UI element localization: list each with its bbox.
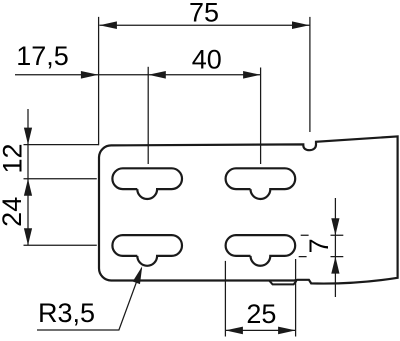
- arrow 40 right: [243, 71, 261, 79]
- slot row1 col2: [226, 168, 296, 199]
- dim line 7 vertical: [334, 198, 336, 297]
- svg-text:25: 25: [246, 299, 276, 329]
- arrow 17,5 right-pointing: [81, 71, 99, 79]
- arrow 75 left: [99, 21, 117, 29]
- arrow 12 top down: [24, 128, 32, 145]
- svg-text:7: 7: [304, 238, 334, 253]
- part outline: [99, 136, 398, 283]
- extension line left edge (75/17,5): [98, 17, 100, 145]
- extension line row1 center: [24, 178, 97, 180]
- svg-text:40: 40: [192, 44, 222, 74]
- dashed ext line 7 top: [301, 234, 344, 236]
- svg-text:17,5: 17,5: [16, 41, 69, 71]
- svg-text:75: 75: [189, 0, 219, 28]
- extension line row2 center: [24, 244, 97, 246]
- joggle lower edge: [269, 281, 296, 285]
- extension line 75 right: [309, 17, 311, 132]
- arrow 24 up: [24, 179, 32, 196]
- arrow 7 top down: [331, 218, 339, 235]
- dim line 75: [99, 24, 309, 26]
- svg-text:R3,5: R3,5: [38, 298, 95, 328]
- arrow 40 left: [148, 71, 166, 79]
- extension line top edge left: [24, 144, 99, 146]
- extension line 25 left: [224, 261, 226, 337]
- arrow 25 left: [225, 327, 243, 335]
- extension line col2 center: [260, 68, 262, 165]
- dim line 17,5 / 40: [15, 74, 261, 76]
- arrow 7 bottom up: [331, 257, 339, 274]
- slot row1 col1: [112, 168, 182, 199]
- svg-text:12: 12: [0, 143, 28, 173]
- leader arrow R3,5: [133, 266, 143, 284]
- extension line col1 center: [147, 67, 149, 164]
- arrow 75 right: [292, 21, 310, 29]
- dim line 25: [225, 329, 295, 331]
- leader R3,5: [37, 268, 142, 330]
- extension line 25 right: [295, 259, 297, 337]
- arrow 25 right: [278, 327, 296, 335]
- dashed ext line 7 bottom: [299, 256, 344, 258]
- slot row2 col1: [112, 235, 182, 266]
- svg-text:24: 24: [0, 197, 27, 227]
- dim line 12/24 vertical: [27, 109, 29, 245]
- arrow 24 down: [24, 228, 32, 245]
- slot row2 col2: [226, 235, 296, 266]
